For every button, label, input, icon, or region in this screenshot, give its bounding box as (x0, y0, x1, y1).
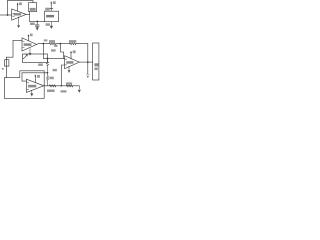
ADC box (93, 43, 99, 80)
feedback component box R_F (29, 3, 37, 12)
V+ supply arrow U3 (34, 76, 36, 82)
V+ supply arrow U1 (17, 4, 19, 11)
resistor R4 bottom rail (49, 85, 55, 87)
cap plates bottom of right vertical (86, 73, 89, 75)
R5 label below (61, 90, 67, 92)
node dot bottom rail (60, 85, 62, 87)
node dot U2 output (43, 43, 45, 45)
op-amp U1 (12, 9, 26, 20)
R1 label (49, 40, 55, 42)
wire U3 output rail (44, 85, 80, 87)
V+ label U5 (53, 1, 56, 4)
wire U1 output (26, 13, 30, 15)
node dot at 1k branch (47, 58, 49, 60)
wire from U2 output down (42, 44, 44, 59)
op-amp U2 input marks (23, 42, 25, 48)
V- down arrow below U1 (18, 17, 20, 26)
resistor R2 on mid rail (70, 43, 76, 45)
down arrow below U2 into probe box (29, 49, 31, 54)
ground arrow below right vertical (87, 76, 90, 79)
divider label b (51, 49, 56, 51)
wire between resistors (56, 43, 70, 45)
divider label a (54, 45, 57, 47)
V+ label U4 (73, 50, 76, 53)
R3 label 1k (38, 64, 43, 66)
rail label after U2 (44, 39, 48, 41)
capacitor C1 to ground (35, 21, 39, 27)
wire left vertical from U2 input (7, 41, 14, 58)
ADC label b (94, 68, 97, 71)
op-amp U4 (65, 56, 80, 69)
V+ supply arrow U4 (70, 52, 72, 59)
node junction dot at input of U1 (7, 14, 9, 16)
U5 top pin cap label (45, 8, 49, 11)
node dot at cap junction (36, 21, 38, 23)
V+ label U3 (37, 75, 40, 78)
V+ supply arrow U2 (27, 35, 29, 40)
V+ label U2 (30, 34, 33, 37)
ground arrow below C1 (36, 27, 39, 30)
node dot U4 output (87, 61, 89, 63)
op-amp U1 input marks (13, 13, 15, 16)
C1 label (30, 23, 35, 26)
wire from box down (29, 12, 31, 22)
resistor R5 bottom rail (66, 85, 72, 87)
R4 label below (47, 90, 55, 93)
sensor terminal label (2, 68, 4, 70)
ADC label a (94, 63, 98, 66)
U5 label text (46, 15, 54, 18)
wire top feedback horizontal (8, 1, 34, 3)
wire U2 output rail (37, 43, 50, 46)
resistor R1 on mid rail (49, 43, 55, 45)
wire feedback top-left vertical (7, 1, 9, 15)
wire feedback vertical right (87, 44, 89, 74)
op-amp U3 (27, 79, 44, 92)
sensor element small box (5, 60, 9, 66)
wire U4 output (79, 61, 92, 63)
wire to U4 inverting input (43, 57, 64, 59)
wire U3 inverting input drop (22, 73, 27, 81)
op-amp U3 label text (28, 85, 36, 88)
sensor big box outline (4, 71, 44, 99)
wire down left edge (6, 57, 8, 77)
VREF down arrow below U5 (50, 22, 52, 26)
feedback box label (30, 8, 36, 11)
ground arrow at rail end (78, 86, 80, 89)
U5 top pin stub + plate (50, 9, 53, 12)
ground below U3 (31, 90, 33, 93)
op-amp U4 label text (66, 61, 73, 64)
wire rail to right feedback corner (76, 43, 88, 45)
V+ supply arrow U5 (50, 3, 52, 9)
wire input to U1 (0, 14, 12, 16)
reference IC box U5 (45, 11, 59, 22)
op-amp U4 input marks (65, 59, 67, 65)
R5 label above (66, 82, 72, 84)
op-amp U2 label text (24, 43, 32, 46)
R2 label (69, 40, 76, 42)
op-amp U3 input marks (27, 83, 29, 90)
wire U3 feedback top (22, 72, 48, 74)
resistor R3 1k vertical (46, 58, 49, 72)
op-amp U1 label text (14, 13, 22, 15)
U4 input label (53, 69, 57, 71)
op-amp U2 (22, 38, 37, 51)
wire from bottom rail dot up to U4 (61, 65, 65, 86)
R6 label (49, 77, 53, 80)
probe box diagonal mark (23, 55, 27, 59)
resistor R6 vertical to U3 output (46, 73, 49, 86)
VREF label (46, 23, 50, 26)
wire divider junction to U4 input (60, 44, 63, 59)
probe model box (22, 54, 47, 62)
wire to U2 inverting input (13, 40, 22, 42)
node dot divider junction (59, 43, 61, 45)
node dot feedback U3 (47, 72, 49, 74)
ground below U4 (68, 66, 70, 70)
V+ label U1 (19, 2, 22, 5)
wire to reference box (30, 20, 45, 22)
